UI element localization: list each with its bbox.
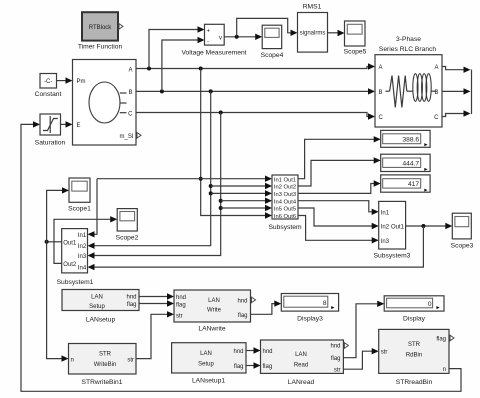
wire Out1 up to Scope1 <box>47 187 69 242</box>
wire STRreadBin n feedback to Saturation <box>21 121 461 391</box>
svg-text:signalrms: signalrms <box>300 31 326 37</box>
wire C down-feed vertical <box>88 113 223 259</box>
display 444.7 <box>381 154 430 171</box>
display 417 <box>381 175 430 192</box>
svg-text:C: C <box>379 115 384 121</box>
svg-text:Out1: Out1 <box>63 240 77 246</box>
svg-text:In3: In3 <box>78 254 87 260</box>
svg-text:Out2: Out2 <box>63 262 77 268</box>
block synchronous machine <box>73 60 137 146</box>
svg-text:flag: flag <box>127 302 137 308</box>
svg-text:417: 417 <box>408 181 419 188</box>
wire In3 row <box>211 190 272 196</box>
svg-text:B: B <box>379 90 383 96</box>
svg-text:hnd: hnd <box>263 349 273 355</box>
svg-text:In1 Out1: In1 Out1 <box>274 177 296 183</box>
svg-text:n: n <box>71 357 74 363</box>
wire A to VM plus <box>149 26 205 68</box>
svg-text:388.6: 388.6 <box>402 136 419 143</box>
display Display3 <box>281 294 338 323</box>
svg-text:LAN: LAN <box>91 295 103 301</box>
svg-text:LANread: LANread <box>288 379 315 386</box>
svg-text:In6 Out6: In6 Out6 <box>274 214 296 220</box>
wire STRwriteBin1 str to LANwrite str <box>136 311 174 359</box>
wire Subsystem Out3 to display 417 <box>298 180 381 193</box>
port m_SI open <box>137 133 141 139</box>
wire RMS to Scope5 <box>328 30 345 36</box>
svg-text:In3 Out3: In3 Out3 <box>274 192 296 198</box>
svg-text:flag: flag <box>263 364 273 370</box>
svg-text:Scope3: Scope3 <box>451 243 474 250</box>
wire Subsystem Out1 to display 388.6 <box>298 136 381 179</box>
block STRwriteBin1 <box>69 344 137 387</box>
block LANsetup <box>62 290 139 324</box>
block RMS1 signalrms <box>298 4 328 53</box>
svg-text:444.7: 444.7 <box>402 160 419 167</box>
svg-text:flag: flag <box>234 364 244 370</box>
svg-text:Pm: Pm <box>77 79 86 85</box>
scope Scope2 <box>116 209 139 242</box>
wire VM to RMS bypass <box>237 18 298 36</box>
scope Scope3 <box>451 213 474 249</box>
scope Scope4 <box>261 25 284 59</box>
svg-text:+: + <box>207 29 211 35</box>
wire LANread flag to Display <box>343 301 384 358</box>
block RTBlock (Timer Function) <box>78 12 123 50</box>
wire Subsystem Out6 to Subsystem3 In3 <box>298 216 379 244</box>
wire Saturation to E <box>61 121 73 127</box>
svg-text:A: A <box>128 67 132 73</box>
svg-text:Setup: Setup <box>89 304 105 310</box>
svg-text:STR: STR <box>408 342 421 348</box>
wire Subsystem3 Out1 to Scope3 <box>406 223 453 229</box>
wire Subsystem Out2 to display 444.7 <box>298 157 381 186</box>
svg-text:-C-: -C- <box>44 79 52 85</box>
wire RLC output A <box>442 67 471 73</box>
svg-text:In3: In3 <box>381 239 390 245</box>
svg-text:hnd: hnd <box>237 299 247 305</box>
wire In2 row <box>211 183 272 189</box>
svg-text:m_SI: m_SI <box>119 134 133 140</box>
scope Scope1 <box>68 178 91 213</box>
port LANread hnd open <box>344 343 348 349</box>
svg-text:8: 8 <box>323 300 327 307</box>
svg-text:C: C <box>128 112 133 118</box>
block Subsystem3 <box>374 201 411 259</box>
svg-text:LAN: LAN <box>208 298 220 304</box>
svg-text:In5 Out5: In5 Out5 <box>274 207 296 213</box>
svg-text:-: - <box>207 40 209 46</box>
svg-text:Voltage Measurement: Voltage Measurement <box>181 50 246 57</box>
wire VM output <box>224 34 262 40</box>
wire RLC output bus <box>471 70 473 115</box>
display 388.6 <box>381 130 430 147</box>
svg-text:RTBlock: RTBlock <box>89 25 113 31</box>
svg-text:STRreadBin: STRreadBin <box>396 379 433 386</box>
svg-text:In4 Out4: In4 Out4 <box>274 199 297 205</box>
wire node In1 row to Subsystem and Subsystem1 <box>88 176 273 238</box>
wire In5 row <box>221 205 272 211</box>
scope Scope5 <box>344 21 367 56</box>
wire LANsetup flag to LANwrite <box>139 300 174 306</box>
wire B down-feed vertical <box>88 91 213 249</box>
svg-text:Scope1: Scope1 <box>68 206 91 213</box>
svg-text:LAN: LAN <box>295 352 307 358</box>
wire B to VM minus <box>162 37 205 92</box>
svg-text:In2 Out2: In2 Out2 <box>274 185 296 191</box>
svg-text:In1: In1 <box>78 233 87 239</box>
svg-text:Write: Write <box>207 308 222 314</box>
svg-text:str: str <box>381 350 388 356</box>
block Saturation <box>35 114 66 147</box>
svg-text:C: C <box>434 115 439 121</box>
block Voltage Measurement U-VM <box>181 24 246 56</box>
svg-text:Saturation: Saturation <box>35 140 66 147</box>
svg-text:flag: flag <box>238 313 248 319</box>
wire LANsetup1 flag to LANread <box>246 362 261 368</box>
svg-text:In1: In1 <box>381 210 390 216</box>
svg-text:LANwrite: LANwrite <box>198 326 225 333</box>
port LANwrite hnd open <box>252 297 256 303</box>
wire LANsetup1 hnd to LANread <box>246 347 261 353</box>
wire phase B <box>136 88 375 94</box>
svg-text:Scope4: Scope4 <box>261 52 284 59</box>
wire LANsetup hnd to LANwrite <box>139 293 174 299</box>
svg-text:LANsetup: LANsetup <box>86 317 116 324</box>
svg-text:Out1: Out1 <box>391 225 405 231</box>
svg-text:Subsystem: Subsystem <box>268 224 302 231</box>
svg-text:str: str <box>334 368 341 374</box>
svg-text:Scope5: Scope5 <box>344 49 367 56</box>
svg-text:Display: Display <box>403 316 426 323</box>
block Constant <box>35 74 62 99</box>
svg-text:In2: In2 <box>381 225 390 231</box>
svg-text:hnd: hnd <box>233 349 243 355</box>
svg-text:str: str <box>127 357 134 363</box>
wire Subsystem1 Out2 to Scope2 <box>54 216 117 263</box>
svg-text:v: v <box>219 35 222 41</box>
svg-text:hnd: hnd <box>126 295 136 301</box>
block Subsystem1 <box>57 229 94 286</box>
wire RLC output C <box>442 110 471 116</box>
svg-text:A: A <box>434 65 438 71</box>
wire Subsystem Out4 to Subsystem3 In1 <box>298 201 379 215</box>
block 3-Phase Series RLC Branch <box>375 36 442 127</box>
block LANread <box>261 340 344 386</box>
wire A down-feed vertical <box>199 69 272 219</box>
svg-text:WriteBin: WriteBin <box>94 362 117 368</box>
wire phase C <box>136 111 375 120</box>
svg-text:flag: flag <box>331 356 341 362</box>
svg-text:LANsetup1: LANsetup1 <box>192 378 225 385</box>
svg-text:str: str <box>176 313 183 319</box>
svg-text:LAN: LAN <box>200 351 212 357</box>
svg-text:RdBin: RdBin <box>406 352 422 358</box>
svg-text:Display3: Display3 <box>297 316 323 323</box>
wire Constant to Pm <box>57 77 73 83</box>
svg-text:flag: flag <box>176 303 186 309</box>
svg-text:hnd: hnd <box>330 344 340 350</box>
svg-text:Timer Function: Timer Function <box>78 44 123 51</box>
wire LANread str to STRreadBin <box>343 348 378 369</box>
svg-text:RMS1: RMS1 <box>303 4 322 11</box>
display Display <box>384 296 444 323</box>
svg-text:In2: In2 <box>78 244 87 250</box>
wire RLC output B <box>442 88 471 94</box>
block Subsystem <box>268 175 302 231</box>
wire Subsystem1 Out1 junction <box>45 240 62 244</box>
svg-text:STR: STR <box>99 352 112 358</box>
block LANwrite <box>174 290 251 333</box>
svg-text:flag: flag <box>436 337 446 343</box>
svg-text:n: n <box>443 367 446 373</box>
wire Subsystem3 Out1 branch to Subsystem1 In4 <box>88 226 424 270</box>
port STRreadBin flag open <box>450 335 454 341</box>
block LANsetup1 <box>172 343 246 385</box>
wire phase A <box>136 63 375 70</box>
svg-text:Read: Read <box>294 362 308 368</box>
svg-text:0: 0 <box>428 301 432 308</box>
svg-text:Setup: Setup <box>198 361 214 367</box>
svg-text:Constant: Constant <box>35 91 62 98</box>
svg-text:STRwriteBin1: STRwriteBin1 <box>82 379 123 386</box>
svg-text:Subsystem3: Subsystem3 <box>374 253 411 260</box>
wire Out1 down to STRwriteBin1 n <box>47 242 69 362</box>
wire LANwrite flag to Display3 <box>251 300 282 314</box>
wire Subsystem Out5 to Subsystem3 In2 <box>298 208 379 229</box>
svg-text:Subsystem1: Subsystem1 <box>57 279 94 286</box>
svg-text:A: A <box>379 65 383 71</box>
svg-text:3-Phase: 3-Phase <box>396 36 421 43</box>
svg-text:In4: In4 <box>78 266 87 272</box>
wire In4 row <box>221 198 272 204</box>
svg-text:B: B <box>128 90 132 96</box>
svg-text:Series RLC Branch: Series RLC Branch <box>379 46 437 53</box>
svg-text:hnd: hnd <box>176 295 186 301</box>
svg-text:Scope2: Scope2 <box>116 235 139 242</box>
block STRreadBin <box>379 329 449 386</box>
svg-text:E: E <box>77 123 81 129</box>
